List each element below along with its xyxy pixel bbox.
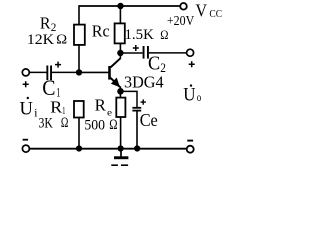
svg-text:CC: CC — [209, 9, 222, 20]
plus sign C2 — [133, 45, 139, 51]
label C1 — [42, 75, 60, 100]
label Ce — [140, 110, 158, 130]
transistor Q1 3DG4 — [108, 58, 120, 87]
wire input to C1 — [29, 71, 47, 73]
capacitor C2 — [143, 46, 149, 59]
wire emitter node to Ce — [120, 91, 137, 107]
wire bottom rail — [29, 148, 187, 150]
svg-text:Rc: Rc — [92, 22, 110, 41]
node rail Ce — [134, 145, 140, 151]
wire base node to transistor base — [79, 71, 108, 73]
plus sign C1 — [55, 62, 61, 68]
wire top rail — [79, 5, 180, 7]
node emitter — [117, 88, 124, 95]
wire emitter vertical — [119, 87, 121, 92]
svg-text:R: R — [50, 97, 63, 116]
svg-text:Ce: Ce — [140, 110, 158, 130]
label Vcc — [196, 1, 223, 21]
node collector — [117, 50, 123, 56]
label C2 — [148, 52, 166, 75]
wire R1 bottom to rail — [78, 118, 80, 149]
svg-text:U: U — [183, 85, 196, 106]
label Re — [95, 96, 112, 119]
svg-text:V: V — [196, 1, 208, 21]
wire Ce bottom to rail — [136, 112, 138, 149]
svg-text:U: U — [20, 98, 33, 119]
node rail R1 — [76, 145, 82, 151]
svg-text:3K: 3K — [39, 116, 54, 132]
wire collector vertical — [119, 52, 121, 59]
svg-text:Ω: Ω — [109, 117, 117, 133]
svg-text:C: C — [42, 75, 55, 100]
label Uo — [183, 84, 201, 105]
svg-text:2: 2 — [160, 60, 166, 75]
terminal output bottom — [187, 146, 194, 153]
ground — [111, 149, 128, 167]
wire C1 to base node — [52, 71, 79, 73]
svg-text:12K: 12K — [27, 32, 54, 48]
svg-text:+20V: +20V — [167, 14, 194, 29]
svg-text:500: 500 — [84, 117, 105, 133]
resistor R2 — [74, 25, 85, 45]
wire emitter node to Re — [119, 91, 121, 97]
terminal Vcc — [180, 3, 187, 10]
node base — [76, 69, 82, 75]
svg-text:Ω: Ω — [61, 115, 69, 131]
svg-text:o: o — [197, 92, 202, 104]
label R1 — [50, 97, 65, 117]
label +20V — [167, 14, 194, 29]
wire R2 bottom to base node — [78, 45, 80, 73]
terminal input bottom — [22, 145, 29, 152]
node rail Re — [118, 145, 124, 151]
label 1.5K ohm — [125, 27, 169, 43]
label 500 ohm — [84, 117, 117, 133]
label 3DG4 — [124, 72, 164, 91]
wire collector node to C2 — [120, 52, 142, 54]
svg-text:3DG4: 3DG4 — [124, 72, 164, 91]
terminal input — [22, 69, 29, 76]
wire C2 to output terminal — [149, 52, 186, 54]
label Ui — [20, 97, 39, 120]
label R2 — [40, 13, 56, 34]
svg-text:C: C — [148, 52, 160, 74]
svg-text:1.5K: 1.5K — [125, 27, 154, 43]
svg-text:Ω: Ω — [56, 33, 67, 48]
wire R2 top — [78, 5, 80, 24]
label 12K ohm — [27, 32, 67, 48]
terminal output top — [187, 49, 194, 56]
plus sign output — [189, 61, 195, 67]
minus sign input — [23, 139, 29, 141]
resistor R1 — [74, 101, 84, 118]
svg-text:Ω: Ω — [160, 27, 168, 42]
node top rail / Rc junction — [117, 3, 123, 9]
minus sign output — [187, 140, 193, 142]
resistor Re — [116, 98, 125, 117]
wire Rc top — [119, 6, 121, 23]
svg-text:R: R — [95, 96, 107, 115]
capacitor C1 — [46, 66, 52, 81]
plus sign input — [23, 81, 29, 87]
svg-text:R: R — [40, 13, 51, 32]
label 3K ohm — [39, 115, 69, 131]
wire Re bottom to rail — [120, 117, 122, 149]
plus sign Ce — [141, 99, 146, 104]
label Rc — [92, 22, 110, 41]
resistor Rc — [115, 23, 125, 43]
capacitor Ce — [132, 107, 141, 112]
wire Rc bottom to collector node — [119, 43, 121, 53]
